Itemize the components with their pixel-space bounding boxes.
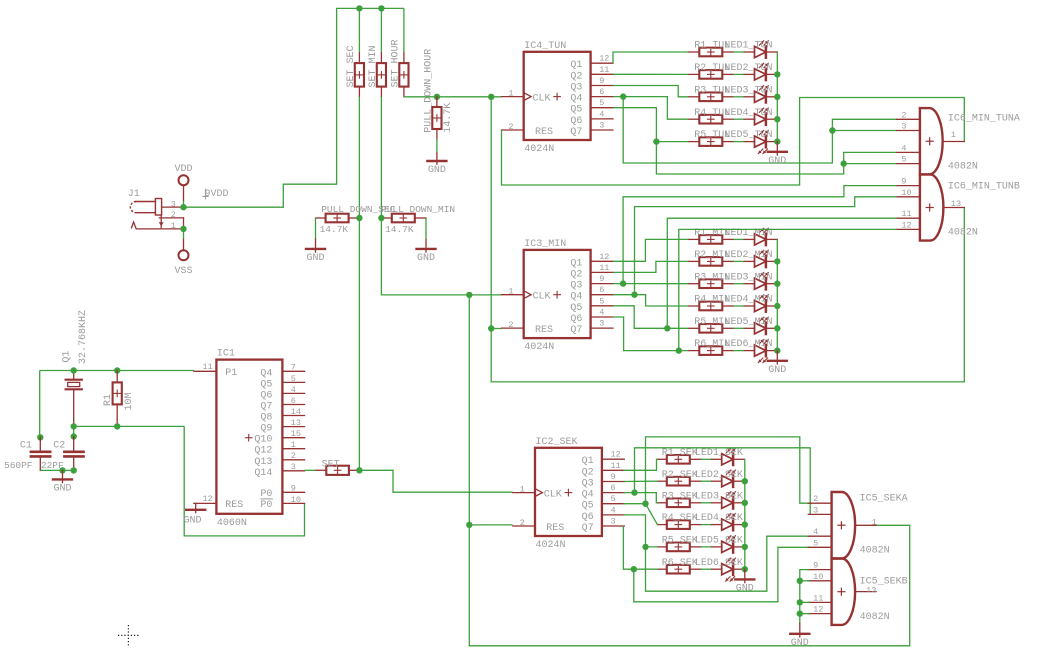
svg-text:5: 5 <box>291 374 296 384</box>
IC4_TUN pin 1 CLK <box>502 88 561 104</box>
label LED2_TUN <box>725 63 773 74</box>
svg-text:GND: GND <box>428 165 446 176</box>
resistor R1_MIN leads <box>688 238 733 240</box>
svg-text:VDD: VDD <box>174 164 192 175</box>
gate IC5_SEKA output pin 1 lead <box>855 517 877 527</box>
svg-text:4: 4 <box>611 505 616 515</box>
label SET <box>322 459 340 470</box>
wire R6_MIN to LED6_MIN <box>733 350 744 352</box>
power symbol VDD <box>174 164 192 201</box>
label R3_SEK <box>662 491 698 502</box>
LED LED2_MIN <box>744 250 777 267</box>
wire IC4 Q4 to R4_TUN <box>613 97 688 120</box>
gate IC6_MIN_TUNA input pin 5 <box>897 155 920 165</box>
junction IC6A pin5 tie <box>841 160 847 166</box>
resistor R2_SEK leads <box>658 480 701 482</box>
IC3_MIN pin 5 Q5 <box>570 296 613 314</box>
svg-text:13: 13 <box>291 418 301 428</box>
svg-text:GND: GND <box>184 516 202 527</box>
svg-text:12: 12 <box>813 605 823 615</box>
junction IC6A pin3 tie <box>829 127 835 133</box>
svg-text:R1_SEK: R1_SEK <box>662 448 698 459</box>
junction branch / IC3 RES row <box>488 325 494 331</box>
label R1_MIN <box>694 228 730 239</box>
svg-text:2: 2 <box>508 122 513 132</box>
resistor R5_SEK leads <box>658 546 701 548</box>
wire bus to SET_MIN top <box>380 8 382 53</box>
wire IC5B pin11 stub <box>800 601 810 603</box>
svg-text:3: 3 <box>813 505 818 515</box>
svg-text:2: 2 <box>171 210 176 220</box>
svg-text:Q5: Q5 <box>582 501 594 512</box>
svg-text:Q5: Q5 <box>260 379 272 390</box>
value 4082N <box>860 612 890 623</box>
wire IC2 Q3 to R2_SEK <box>623 480 657 482</box>
ground GND MIN LEDs <box>768 351 787 376</box>
gate IC6_MIN_TUNB input pin 12 <box>897 220 920 230</box>
junction SET_MIN column / PULL_DOWN_MIN <box>378 215 384 221</box>
gate IC6_MIN_TUNB input pin 11 <box>897 209 920 219</box>
junction SET_SEC column / PULL_DOWN_SEC <box>356 215 362 221</box>
IC1 pin 3 Q14 <box>254 462 304 479</box>
wire IC5B inputs tied to ground <box>800 570 810 624</box>
wire R3_MIN to LED3_MIN <box>733 283 744 285</box>
gate IC5_SEKA input pin 3 <box>808 505 831 515</box>
label R3_MIN <box>694 272 730 283</box>
svg-text:1: 1 <box>951 130 956 140</box>
wire IC3 Q6 branch to IC6B pin 12 <box>679 229 897 350</box>
wire IC2 Q6 to R5_SEK <box>623 515 657 547</box>
AND gate IC5_SEKA <box>832 492 856 559</box>
switch SET_HOUR leads <box>403 53 405 97</box>
gate IC6_MIN_TUNB input pin 9 <box>897 177 920 187</box>
IC2_SEK pin 2 RES <box>513 518 565 534</box>
resistor R6_MIN <box>699 346 722 355</box>
wire R5_TUN to LED5_TUN <box>733 141 744 143</box>
junction IC4 Q5 branch <box>653 138 659 144</box>
IC1 pin 5 Q5 <box>260 374 304 391</box>
svg-text:LED1_SEK: LED1_SEK <box>695 448 743 459</box>
svg-text:14: 14 <box>291 407 301 417</box>
label LED1_MIN <box>725 228 773 239</box>
junction MIN cathode junction <box>774 258 780 264</box>
svg-text:R4_SEK: R4_SEK <box>662 513 698 524</box>
svg-text:PULL_DOWN_MIN: PULL_DOWN_MIN <box>381 204 455 215</box>
wire IC3 Q5 branch to IC6B pin 11 <box>667 218 896 328</box>
svg-text:Q10: Q10 <box>254 435 272 446</box>
svg-text:6: 6 <box>599 285 604 295</box>
IC1 pin 2 Q13 <box>254 451 304 468</box>
wire IC3 RES stub wire <box>491 328 501 330</box>
label R2_TUN <box>694 63 730 74</box>
wire IC4 Q4 branch to IC6A pins 2 3 <box>623 97 896 163</box>
value 4082N <box>948 228 978 239</box>
resistor R5_TUN leads <box>688 141 733 143</box>
svg-text:Q13: Q13 <box>254 457 272 468</box>
svg-text:11: 11 <box>599 263 609 273</box>
svg-text:Q4: Q4 <box>570 292 582 303</box>
IC1 pin 9 P0 <box>260 484 304 500</box>
resistor R5_MIN leads <box>688 327 733 329</box>
resistor R5_TUN <box>699 137 722 146</box>
svg-text:6: 6 <box>291 396 296 406</box>
gate IC6_MIN_TUNA input pin 4 <box>897 143 920 153</box>
junction IC3 Q6 branch <box>676 347 682 353</box>
resistor R4_SEK leads <box>658 524 701 526</box>
resistor R2_TUN <box>699 70 722 79</box>
svg-text:SET: SET <box>322 459 340 470</box>
junction TUN cathode junction <box>774 71 780 77</box>
resistor R3_TUN leads <box>688 96 733 98</box>
IC2_SEK pin 5 Q5 <box>582 494 625 512</box>
power symbol VSS <box>174 239 192 277</box>
label R5_TUN <box>694 130 730 141</box>
wire R3_SEK to LED3_SEK <box>701 502 712 504</box>
value 560PF <box>4 460 33 471</box>
LED LED4_SEK <box>712 513 745 530</box>
svg-text:SET_SEC: SET_SEC <box>346 45 357 87</box>
label LED5_SEK <box>695 536 743 547</box>
wire PULL_DOWN_MIN to GND <box>425 218 427 239</box>
junction SET jumper / SET_SEC column <box>356 467 362 473</box>
wire VDD pin to J1 pin3 <box>183 201 185 207</box>
wire IC4 Q1 to R1_TUN <box>613 52 688 63</box>
resistor PULL_DOWN_MIN leads <box>381 217 426 219</box>
svg-text:RES: RES <box>535 127 553 138</box>
svg-text:IC6_MIN_TUNB: IC6_MIN_TUNB <box>948 181 1020 192</box>
svg-text:LED3_SEK: LED3_SEK <box>695 491 743 502</box>
svg-text:Q6: Q6 <box>570 314 582 325</box>
svg-text:Q12: Q12 <box>254 446 272 457</box>
svg-text:Q8: Q8 <box>260 413 272 424</box>
wire IC3 Q3 branch to IC6B pin 9 <box>623 186 897 284</box>
svg-text:9: 9 <box>291 484 296 494</box>
wire IC3 Q4 to R4_MIN <box>613 295 688 306</box>
svg-text:6: 6 <box>611 483 616 493</box>
wire oscillator node to IC1 P1 <box>40 370 194 372</box>
jumper SET <box>326 466 349 475</box>
gate IC5_SEKA input pin 2 <box>808 494 831 504</box>
label IC6_MIN_TUNB <box>948 181 1020 192</box>
svg-text:4024N: 4024N <box>524 144 554 155</box>
value 4082N <box>948 161 978 172</box>
svg-text:Q1: Q1 <box>582 456 594 467</box>
resistor R1_MIN <box>699 235 722 244</box>
wire R5_MIN to LED5_MIN <box>733 327 744 329</box>
junction IC3 CLK node <box>466 292 472 298</box>
wire R1_SEK to LED1_SEK <box>701 458 712 460</box>
wire R4_SEK to LED4_SEK <box>701 524 712 526</box>
svg-text:Q3: Q3 <box>582 479 594 490</box>
LED LED1_TUN <box>744 41 777 58</box>
svg-text:1: 1 <box>520 484 525 494</box>
IC2_SEK pin 12 Q1 <box>582 450 625 468</box>
resistor R2_MIN <box>699 257 722 266</box>
LED LED1_SEK <box>712 448 745 465</box>
svg-text:PULL_DOWN_HOUR: PULL_DOWN_HOUR <box>424 49 435 133</box>
wire IC6A pin3 stub <box>832 130 896 132</box>
svg-text:Q3: Q3 <box>570 83 582 94</box>
junction IC2 Q6 branch <box>642 544 648 550</box>
LED LED4_MIN <box>744 295 777 312</box>
label LED4_SEK <box>695 513 743 524</box>
LED LED5_MIN <box>744 317 777 334</box>
label LED3_SEK <box>695 491 743 502</box>
svg-text:Q4: Q4 <box>570 94 582 105</box>
IC1 pin 14 Q8 <box>260 407 304 424</box>
svg-text:12: 12 <box>901 220 911 230</box>
svg-text:11: 11 <box>202 362 212 372</box>
LED LED2_TUN <box>744 63 777 80</box>
svg-text:3: 3 <box>599 319 604 329</box>
svg-text:LED5_TUN: LED5_TUN <box>725 130 773 141</box>
resistor R6_SEK <box>667 565 690 574</box>
ground GND below IC5B inputs <box>790 623 809 649</box>
wire IC6A out to IC4 RES <box>502 98 965 186</box>
svg-text:GND: GND <box>768 156 786 167</box>
label R4_TUN <box>694 108 730 119</box>
junction R1 bottom node <box>114 423 120 429</box>
svg-text:9: 9 <box>611 472 616 482</box>
junction R1 top / P1 net <box>114 367 120 373</box>
svg-text:C1: C1 <box>20 440 32 451</box>
svg-text:IC5_SEKA: IC5_SEKA <box>860 494 908 505</box>
resistor PULL_DOWN_HOUR <box>432 107 441 129</box>
label R6_MIN <box>694 339 730 350</box>
resistor R3_MIN leads <box>688 283 733 285</box>
resistor PULL_DOWN_HOUR leads <box>436 97 438 139</box>
wire IC2 RES stub <box>469 524 512 526</box>
svg-text:5: 5 <box>611 494 616 504</box>
resistor R1_TUN leads <box>688 51 733 53</box>
svg-text:LED2_MIN: LED2_MIN <box>725 250 773 261</box>
svg-text:9: 9 <box>599 76 604 86</box>
svg-text:P0: P0 <box>260 500 272 511</box>
net label +9VDD <box>202 189 228 200</box>
svg-text:IC2_SEK: IC2_SEK <box>536 437 578 448</box>
svg-text:4: 4 <box>901 143 906 153</box>
switch SET_HOUR <box>399 63 408 87</box>
junction MIN cathode junction <box>774 325 780 331</box>
svg-text:Q7: Q7 <box>570 325 582 336</box>
resistor R3_MIN <box>699 279 722 288</box>
svg-text:9: 9 <box>901 177 906 187</box>
svg-text:J1: J1 <box>128 189 140 200</box>
junction C1 bottom gnd node <box>59 467 65 473</box>
wire IC2 Q6 branch to IC5A pin 4 <box>646 536 810 591</box>
label LED5_TUN <box>725 130 773 141</box>
svg-text:LED6_SEK: LED6_SEK <box>695 558 743 569</box>
svg-text:4082N: 4082N <box>860 546 890 557</box>
svg-text:R2_SEK: R2_SEK <box>662 470 698 481</box>
svg-text:Q1: Q1 <box>62 351 73 363</box>
wire SET_SEC column down to SET jumper node <box>358 97 360 471</box>
svg-text:LED1_TUN: LED1_TUN <box>725 41 773 52</box>
wire IC4 Q5 branch to IC6A pins 4 5 <box>656 142 896 174</box>
svg-text:1: 1 <box>508 287 513 297</box>
IC1 internal plus mark <box>245 434 252 441</box>
svg-text:GND: GND <box>736 584 754 595</box>
svg-text:3: 3 <box>901 122 906 132</box>
svg-text:LED4_TUN: LED4_TUN <box>725 108 773 119</box>
switch SET_SEC <box>355 63 364 87</box>
wire IC4 Q3 to R3_TUN <box>613 86 688 97</box>
svg-text:Q9: Q9 <box>260 424 272 435</box>
IC4_TUN pin 11 Q2 <box>570 65 613 83</box>
svg-text:9: 9 <box>599 274 604 284</box>
wire bus to SET_SEC top <box>358 8 360 53</box>
junction IC2 Q5 branch <box>642 501 648 507</box>
IC3_MIN pin 9 Q3 <box>570 274 613 292</box>
svg-text:Q7: Q7 <box>570 127 582 138</box>
wire HOUR net branch down to IC3 RES and IC6B out13 <box>491 97 964 382</box>
IC1 pin 10 P0 inverted <box>260 495 304 511</box>
junction IC3 Q5 branch <box>664 325 670 331</box>
wire IC2 Q2 to R1_SEK <box>623 459 657 470</box>
junction MIN cathode junction <box>774 303 780 309</box>
IC4_TUN pin 2 RES <box>502 122 554 138</box>
svg-text:GND: GND <box>768 365 786 376</box>
gate IC5_SEKA input pin 4 <box>808 527 831 537</box>
ground GND below PULL_DOWN_HOUR <box>427 139 446 176</box>
svg-text:4082N: 4082N <box>948 228 978 239</box>
value 14.7K of PULL_DOWN_MIN <box>385 224 414 235</box>
resistor R2_TUN leads <box>688 73 733 75</box>
svg-text:LED4_SEK: LED4_SEK <box>695 513 743 524</box>
svg-text:Q2: Q2 <box>582 467 594 478</box>
wire IC2 Q5 stub <box>623 503 645 505</box>
IC3_MIN pin 1 CLK <box>502 287 561 303</box>
wire bus corner down to SET_HOUR top <box>403 8 405 53</box>
wire PULL_DOWN_SEC to GND <box>315 218 317 239</box>
resistor R4_TUN leads <box>688 118 733 120</box>
IC4_TUN pin 5 Q5 <box>570 98 613 116</box>
origin cross marker <box>118 625 139 646</box>
wire SET_HOUR net to IC4 CLK <box>404 96 502 98</box>
svg-text:4: 4 <box>599 308 604 318</box>
gate IC5_SEKB input pin 10 <box>808 572 831 582</box>
gate IC5_SEKA input pin 5 <box>808 538 831 548</box>
svg-text:560PF: 560PF <box>4 460 33 471</box>
IC IC1 box <box>216 349 282 529</box>
svg-text:Q6: Q6 <box>570 116 582 127</box>
wire IC2 Q7 to R6_SEK <box>623 526 657 569</box>
junction SEK cathode junction <box>742 478 748 484</box>
svg-text:1: 1 <box>508 88 513 98</box>
svg-text:5: 5 <box>599 296 604 306</box>
resistor R1_TUN <box>699 48 722 57</box>
svg-text:Q5: Q5 <box>570 303 582 314</box>
junction IC5B pin10 gnd tie <box>797 578 803 584</box>
svg-text:LED3_MIN: LED3_MIN <box>725 272 773 283</box>
pin number 1 of J1 <box>171 221 176 231</box>
label R2_MIN <box>694 250 730 261</box>
resistor R5_SEK <box>667 543 690 552</box>
pin number 2 of J1 <box>171 210 176 220</box>
svg-text:12: 12 <box>611 450 621 460</box>
svg-text:RES: RES <box>535 325 553 336</box>
resistor R4_TUN <box>699 115 722 124</box>
LED LED1_MIN <box>744 228 777 245</box>
svg-text:IC3_MIN: IC3_MIN <box>524 239 566 250</box>
ground GND below PULL_DOWN_SEC <box>306 239 325 264</box>
wire R4_MIN to LED4_MIN <box>733 305 744 307</box>
resistor R5_MIN <box>699 324 722 333</box>
svg-text:2: 2 <box>291 451 296 461</box>
wire C2 top stub <box>73 426 75 436</box>
AND gate IC5_SEKB <box>832 559 855 625</box>
wire R1_TUN to LED1_TUN <box>733 51 744 53</box>
junction C1 top <box>37 434 43 440</box>
wire IC5B pin12 stub <box>800 613 810 615</box>
IC3_MIN pin 4 Q6 <box>570 308 613 326</box>
switch SET_MIN leads <box>380 53 382 97</box>
svg-text:R1: R1 <box>103 394 114 406</box>
svg-text:4: 4 <box>599 109 604 119</box>
svg-text:GND: GND <box>417 253 435 264</box>
label R1 <box>103 394 114 406</box>
gate IC6_MIN_TUNA input pin 2 <box>897 110 920 120</box>
junction SEK cathode junction <box>742 544 748 550</box>
label R4_MIN <box>694 295 730 306</box>
gate IC6_MIN_TUNB input pin 10 <box>897 188 920 198</box>
pin number 3 of J1 <box>171 199 176 209</box>
label PULL_DOWN_HOUR <box>424 49 435 133</box>
wire +9VDD J1 pin3 to SET switch bus <box>184 8 404 207</box>
svg-text:11: 11 <box>599 65 609 75</box>
svg-text:Q2: Q2 <box>570 71 582 82</box>
crystal Q1 <box>66 371 82 427</box>
svg-text:14.7K: 14.7K <box>320 224 349 235</box>
wire IC2 Q4 branch to IC5A pin 3 <box>635 448 811 515</box>
svg-text:P1: P1 <box>225 368 237 379</box>
svg-text:LED2_SEK: LED2_SEK <box>695 470 743 481</box>
svg-text:Q1: Q1 <box>570 258 582 269</box>
wire R3_TUN to LED3_TUN <box>733 96 744 98</box>
svg-text:SET_MIN: SET_MIN <box>368 45 379 87</box>
ground below IC1 RES <box>184 503 206 526</box>
wire SET node to IC2 CLK <box>359 470 512 492</box>
junction TUN cathode junction <box>774 116 780 122</box>
svg-text:IC4_TUN: IC4_TUN <box>524 41 566 52</box>
resistor R4_MIN leads <box>688 305 733 307</box>
svg-text:2: 2 <box>520 518 525 528</box>
svg-text:CLK: CLK <box>533 93 551 104</box>
svg-text:IC1: IC1 <box>217 349 235 360</box>
svg-text:4024N: 4024N <box>536 540 566 551</box>
junction J1 pin1 node <box>180 226 186 232</box>
IC3_MIN pin 2 RES <box>502 320 554 336</box>
gate IC5_SEKB input pin 11 <box>808 593 831 603</box>
wire IC3 Q1 to R1_MIN <box>613 239 688 261</box>
svg-text:IC6_MIN_TUNA: IC6_MIN_TUNA <box>948 114 1020 125</box>
svg-text:Q5: Q5 <box>570 105 582 116</box>
value 4082N <box>860 546 890 557</box>
IC3_MIN pin 3 Q7 <box>570 319 613 337</box>
value 10M <box>124 392 135 410</box>
junction HOUR net / PULL_DOWN_HOUR <box>434 94 440 100</box>
svg-text:14.7K: 14.7K <box>443 103 454 133</box>
svg-text:4: 4 <box>813 527 818 537</box>
IC4_TUN pin 3 Q7 <box>570 121 613 139</box>
label IC6_MIN_TUNA <box>948 114 1020 125</box>
svg-text:3: 3 <box>599 121 604 131</box>
wire SEK LED cathode bus <box>744 459 746 569</box>
svg-text:4024N: 4024N <box>524 342 554 353</box>
wire R2_SEK to LED2_SEK <box>701 480 712 482</box>
svg-text:LED6_MIN: LED6_MIN <box>725 339 773 350</box>
svg-text:1: 1 <box>872 517 877 527</box>
